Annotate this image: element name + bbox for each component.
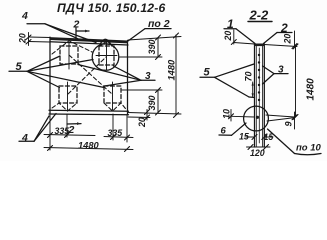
svg-text:20: 20 xyxy=(137,117,147,128)
panel bottom edge lip (double line) xyxy=(49,109,129,112)
svg-text:335: 335 xyxy=(55,126,70,136)
dimension 390 (top right) xyxy=(119,35,181,60)
svg-text:1480: 1480 xyxy=(78,141,100,151)
hole TL (dashed square) xyxy=(60,46,78,64)
leader label 3 (section) xyxy=(263,65,289,85)
leader label по 10 xyxy=(268,129,322,155)
svg-text:20: 20 xyxy=(18,33,28,44)
svg-text:1480: 1480 xyxy=(167,59,177,81)
leader label 1 (section) xyxy=(224,17,255,44)
dimension 120 (section bottom overall) xyxy=(247,145,271,159)
bottom extension lines xyxy=(49,115,51,150)
dashed gusset below hole BL xyxy=(52,103,77,111)
dimension 1480 (section right) xyxy=(293,44,317,120)
dashed gusset above hole TR xyxy=(99,41,114,46)
dimension 20 (section top left) xyxy=(223,30,255,45)
leader label 2 (section) xyxy=(264,21,293,44)
section mark 2 (bottom) xyxy=(67,122,81,136)
dimension 20 (section top right) xyxy=(264,31,297,49)
svg-text:10: 10 xyxy=(222,109,232,119)
dashed gusset below hole BR xyxy=(104,103,127,111)
svg-text:335: 335 xyxy=(108,128,123,138)
dimension 335 (bottom right) xyxy=(104,128,133,140)
svg-text:120: 120 xyxy=(250,148,265,158)
hole TL centerline xyxy=(68,43,70,69)
dimension 15 (right of slab) xyxy=(262,132,274,142)
leader label 5 (section) xyxy=(200,64,255,98)
dimension 10 (section bottom left) xyxy=(222,109,255,121)
dimension 70 (section) xyxy=(244,71,254,97)
dimension 1480 (right overall) xyxy=(167,33,179,118)
leader label 4 (top) xyxy=(21,10,96,43)
dimension 15 (left of slab) xyxy=(239,132,257,142)
svg-text:по 10: по 10 xyxy=(296,143,322,154)
mesh bar in slab with cross ticks xyxy=(258,48,260,143)
svg-text:2-2: 2-2 xyxy=(249,8,270,23)
panel top edge lip (thick double line, sloped) xyxy=(50,37,128,43)
panel outline (plan view) xyxy=(49,37,51,114)
svg-text:4: 4 xyxy=(21,132,28,144)
svg-text:15: 15 xyxy=(239,132,249,142)
hole BL centerline xyxy=(67,82,69,110)
dashed rib diagonal BL-hole to TR-hole xyxy=(68,57,106,94)
dimension 335 (bottom left) xyxy=(44,126,95,137)
dimension 20 (bottom right lip) xyxy=(128,110,181,129)
hole BR centerline xyxy=(112,82,114,110)
svg-text:1480: 1480 xyxy=(306,78,317,101)
dashed rib diagonal TL-hole to BR-hole xyxy=(69,55,112,94)
leader label 6 xyxy=(219,123,246,137)
svg-text:ПДЧ 150. 150.12-6: ПДЧ 150. 150.12-6 xyxy=(57,1,166,15)
leader label 4 (bottom) xyxy=(19,114,56,145)
loop bump on circle top xyxy=(101,39,111,44)
svg-text:9: 9 xyxy=(284,121,294,126)
dimension 390 (bottom right) xyxy=(122,88,162,116)
svg-text:390: 390 xyxy=(147,95,157,110)
detail circle (section bottom) xyxy=(244,106,269,131)
hole BR (dashed square) xyxy=(104,86,121,103)
detail circle around hole TR xyxy=(92,44,119,71)
leader label 3 (plan) xyxy=(78,65,155,87)
svg-text:70: 70 xyxy=(244,71,254,81)
svg-text:4: 4 xyxy=(21,10,28,22)
leader label 5 (plan) xyxy=(9,56,104,88)
dashed gusset above hole TL xyxy=(52,41,92,54)
hole TR (dashed square in circle) xyxy=(99,46,114,65)
dimension 1480 (bottom overall) xyxy=(44,141,133,152)
section slab (vertical bar) xyxy=(255,44,265,148)
leader label по 2 xyxy=(128,18,171,41)
hole BL (dashed square) xyxy=(59,86,77,103)
svg-text:390: 390 xyxy=(147,39,157,54)
svg-text:20: 20 xyxy=(223,31,233,42)
dimension 9 (section bottom right) xyxy=(266,112,297,129)
svg-text:2: 2 xyxy=(68,124,75,136)
svg-text:20: 20 xyxy=(283,34,293,45)
hole TR centerlines xyxy=(106,41,108,70)
dimension 20 (top left lip) xyxy=(18,33,51,46)
section mark 2 (top) xyxy=(73,19,90,41)
mesh node dot xyxy=(256,116,259,119)
